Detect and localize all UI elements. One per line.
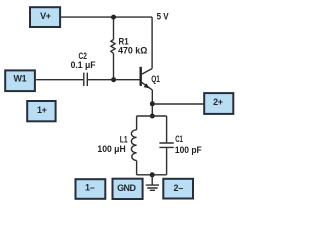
terminal W1 [5, 70, 35, 91]
wire base left (W1 to C2) [36, 79, 83, 81]
node tank bottom [150, 172, 155, 177]
capacitor C2 [84, 73, 88, 86]
svg-text:5 V: 5 V [157, 12, 170, 22]
terminal 2- [163, 179, 193, 199]
terminal V+ [30, 7, 60, 27]
svg-text:2–: 2– [173, 183, 183, 193]
svg-text:GND: GND [117, 183, 136, 193]
wire R1 branch lower [113, 54, 115, 80]
wire tank left lower [136, 161, 138, 175]
svg-text:0.1 μF: 0.1 μF [71, 60, 96, 70]
terminal 1+ [27, 101, 55, 121]
capacitor C1 [159, 143, 173, 147]
svg-text:Q1: Q1 [151, 74, 160, 84]
svg-text:100 pF: 100 pF [175, 145, 202, 155]
inductor L1 [131, 130, 136, 161]
wire collector drop [151, 17, 153, 69]
wire tank left upper [136, 116, 138, 130]
node tank top [150, 114, 155, 119]
node junction top [111, 15, 116, 20]
svg-text:1+: 1+ [37, 105, 47, 115]
node junction base [111, 77, 116, 82]
wire output to 2+ [152, 103, 203, 105]
wire R1 branch upper [113, 17, 115, 39]
wire emitter down [151, 90, 153, 116]
svg-text:470 kΩ: 470 kΩ [118, 45, 148, 55]
svg-text:C1: C1 [175, 134, 183, 144]
svg-text:W1: W1 [13, 74, 26, 84]
terminal 2+ [204, 93, 233, 114]
terminal GND [113, 179, 143, 199]
wire top rail from V+ to collector corner [61, 16, 152, 18]
wire tank right upper [166, 116, 168, 142]
svg-text:2+: 2+ [213, 97, 223, 107]
svg-text:L1: L1 [120, 134, 128, 144]
terminal 1- [76, 179, 106, 199]
wire tank bottom rail [137, 174, 167, 176]
transistor Q1 [140, 67, 153, 90]
svg-text:1–: 1– [85, 183, 95, 193]
svg-text:100 μH: 100 μH [97, 144, 126, 154]
wire base right (C2 to Q1) [88, 79, 139, 81]
ground [146, 175, 159, 191]
wire tank top rail [137, 115, 167, 117]
svg-text:V+: V+ [40, 11, 51, 21]
wire tank right lower [166, 148, 168, 175]
resistor R1 [111, 40, 115, 54]
node emitter/output [150, 101, 155, 106]
